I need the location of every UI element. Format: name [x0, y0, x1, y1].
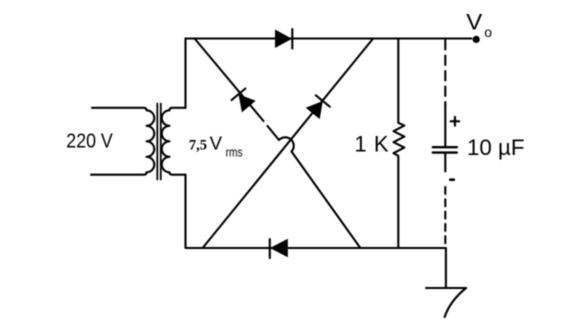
- svg-text:V: V: [210, 134, 222, 154]
- svg-text:o: o: [484, 24, 492, 40]
- svg-text:rms: rms: [226, 144, 243, 159]
- svg-text:1: 1: [354, 131, 366, 156]
- svg-text:K: K: [374, 131, 389, 156]
- svg-text:10 µF: 10 µF: [467, 135, 525, 160]
- svg-text:V: V: [466, 9, 482, 34]
- svg-text:220 V: 220 V: [66, 130, 113, 153]
- svg-text:7,5: 7,5: [189, 138, 207, 154]
